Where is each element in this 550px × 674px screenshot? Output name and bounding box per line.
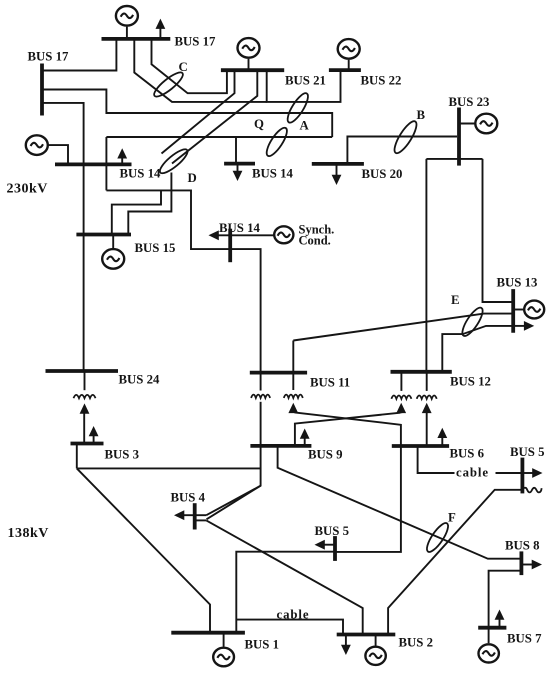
svg-text:BUS 3: BUS 3 [105, 448, 140, 462]
wire G22 to BUS 22 [348, 60, 350, 70]
generator G21 [238, 38, 260, 58]
load arrow BUS 9 (up) [304, 438, 306, 446]
wire G1 to BUS 1 [223, 633, 225, 647]
wire to BUS 15 (via riser x161) [112, 190, 161, 234]
wire BUS4 to BUS2 (riser1) [206, 520, 362, 634]
bus BUS 6 [392, 444, 449, 448]
svg-text:BUS 14: BUS 14 [252, 167, 293, 181]
svg-text:BUS 12: BUS 12 [450, 375, 491, 389]
transformer BUS11-T1 stub [260, 373, 262, 391]
transformer BUS12-T2 stub [426, 372, 428, 391]
svg-text:BUS 5: BUS 5 [315, 524, 350, 538]
load arrow BUS 8 (right) [521, 564, 533, 566]
svg-text:138kV: 138kV [8, 526, 49, 541]
svg-text:cable: cable [277, 608, 310, 622]
svg-text:E: E [451, 293, 460, 307]
svg-text:BUS 21: BUS 21 [285, 73, 326, 87]
transformer BUS12-T1 stub [400, 372, 402, 391]
svg-text:BUS 1: BUS 1 [245, 637, 280, 651]
svg-text:BUS 4: BUS 4 [171, 491, 206, 505]
wire L2 horizontal through Q [106, 136, 332, 138]
svg-text:A: A [300, 119, 310, 133]
wire G23 to BUS 23 [459, 123, 476, 125]
generator G2 [365, 647, 385, 665]
bus BUS 7 [478, 626, 506, 630]
ellipse B [391, 118, 420, 156]
bus BUS 5 (right vertical bar) [521, 458, 525, 494]
transformer BUS12-T1 arrow [396, 403, 406, 413]
ellipse A [284, 91, 311, 126]
transformer BUS11-T1 winding [251, 395, 270, 398]
bus BUS 15 [76, 233, 131, 237]
wire cable BUS1 to BUS2 [236, 620, 343, 635]
load arrow BUS 13 (right) [513, 325, 525, 327]
wire G2 to BUS 2 [375, 635, 377, 646]
bus BUS 8 (vertical bar) [520, 551, 524, 575]
wire G15 to BUS 15 [112, 235, 114, 249]
inductor on BUS 5 [522, 488, 541, 493]
wire BUS5 to BUS2 (riser2 diagonal) [388, 490, 522, 635]
bus BUS 20 [312, 162, 364, 166]
svg-text:BUS 14: BUS 14 [120, 166, 161, 180]
wire BUS23 double-leg header [426, 158, 482, 160]
transformer BUS11-T2 arrow [288, 403, 298, 413]
wire BUS9 below-bar to BUS 4 [207, 446, 261, 519]
svg-text:BUS 7: BUS 7 [507, 631, 542, 645]
svg-text:BUS 24: BUS 24 [119, 373, 160, 387]
bus BUS 9 [250, 444, 311, 448]
wire BUS3 left drop [76, 444, 78, 469]
svg-text:BUS 2: BUS 2 [399, 636, 434, 650]
wire riser to BUS 11 [292, 341, 294, 373]
svg-text:cable: cable [456, 465, 489, 479]
transformer BUS12-T2 arrow [422, 403, 432, 413]
load arrow BUS 5 right [522, 472, 534, 474]
bus BUS 3 [71, 442, 104, 446]
load arrow BUS 3 (up) [93, 435, 95, 443]
load arrow BUS 7 (up) [499, 619, 501, 628]
svg-text:Cond.: Cond. [299, 233, 331, 247]
wire synch cond to BUS 14 with load arrow [218, 234, 275, 236]
wire BUS12 to BUS13 (through E) [442, 326, 513, 372]
wire G7 to BUS 7 [488, 628, 490, 644]
wire G16 to bus [47, 145, 68, 164]
generator G17 (top) [116, 6, 138, 26]
generator G16 (left) [26, 135, 48, 155]
load arrow BUS 14 (down) [237, 164, 239, 172]
svg-text:BUS 14: BUS 14 [219, 221, 260, 235]
ellipse Q [263, 125, 290, 159]
svg-text:230kV: 230kV [7, 182, 48, 197]
wire BUS20 to BUS23 (through B) [347, 137, 457, 164]
wire BUS4 stub 2 [195, 519, 207, 521]
transformer BUS24 winding [74, 395, 96, 398]
wire D-1 BUS21 to D [162, 70, 235, 153]
transformer BUS12-T2 winding [417, 396, 437, 399]
svg-text:BUS 17: BUS 17 [28, 50, 69, 64]
ellipse C [151, 69, 186, 100]
transformer BUS24 arrow [80, 403, 90, 413]
transformer BUS11-T1 lead [260, 402, 262, 446]
bus BUS 17 (top bar) [102, 37, 171, 41]
bus BUS 12 [391, 370, 452, 374]
wire H1 horizontal to BUS 11 [106, 190, 260, 372]
generator G23 [475, 114, 497, 134]
generator G7 [479, 644, 499, 662]
load arrow BUS 6 (up) [441, 437, 443, 446]
bus bar (left, labelled BUS 14) [55, 162, 132, 166]
svg-text:Q: Q [254, 117, 264, 131]
bus BUS 5 (middle vertical bar) [333, 536, 337, 561]
wire C-2 BUS17 to BUS 21 (through C) [152, 39, 227, 93]
svg-text:BUS 11: BUS 11 [310, 375, 350, 389]
load arrow (up) on left BUS 14 [121, 158, 123, 165]
svg-text:F: F [448, 511, 456, 525]
wire BUS11 to BUS13 (through E) [293, 314, 513, 341]
wire X-line BUS11T2 to BUS6/BUS5 [295, 412, 401, 552]
wire BUS23 left leg to BUS 12 [425, 159, 427, 372]
bus BUS 24 [46, 369, 119, 373]
wire BUS3 to BUS1 diagonal [77, 468, 210, 632]
svg-text:BUS 5: BUS 5 [510, 445, 545, 459]
transformer BUS24 stub [84, 371, 86, 390]
generator Synch. Cond. [274, 226, 293, 243]
bus BUS 23 (vertical bar) [457, 108, 461, 166]
svg-text:C: C [179, 60, 188, 74]
svg-text:D: D [188, 171, 197, 185]
ellipse E [459, 305, 486, 339]
wire left BUS17 to node L1 (long horizontal) [43, 90, 332, 138]
wire D to BUS 15 [128, 173, 171, 235]
svg-text:BUS 15: BUS 15 [135, 241, 176, 255]
wire G13 to BUS 13 [513, 309, 524, 311]
bus BUS 21 [221, 68, 284, 72]
bus BUS 4 (vertical bar) [193, 503, 197, 529]
bus BUS 1 [171, 631, 245, 635]
bus BUS 17 (left vertical bar) [40, 64, 44, 116]
wire left BUS17 to top BUS17 [43, 39, 117, 71]
generator G13 [524, 301, 544, 319]
wire C-1 BUS17 to junction A (through C) [134, 39, 266, 102]
generator G15 [102, 249, 124, 269]
load arrow BUS 20 (down) [336, 164, 338, 176]
bus BUS 13 (vertical bar) [511, 289, 515, 333]
wire left BUS17 down-left trunk to BUS 15 / BUS 24 [43, 103, 84, 372]
load arrow BUS 5 mid (left) [324, 544, 335, 546]
bus BUS 14 (top middle) [224, 162, 255, 166]
wire BUS9 to BUS8 (through F) [278, 446, 522, 559]
wire BUS5mid to BUS1 riser [236, 552, 335, 633]
bus BUS 22 [329, 68, 361, 72]
wire D-2 BUS21 to D [172, 70, 257, 163]
bus BUS 2 [337, 633, 396, 637]
transformer BUS11-T2 stub [292, 373, 294, 390]
svg-text:BUS 8: BUS 8 [505, 539, 540, 553]
transformer BUS12-T1 winding [391, 396, 411, 399]
wire G17 to BUS 17 [126, 27, 128, 38]
svg-text:BUS 9: BUS 9 [308, 448, 343, 462]
bus BUS 14 (middle vertical bar) [228, 229, 232, 263]
wire A BUS21 to BUS22 (through A) [267, 70, 341, 102]
svg-text:B: B [417, 108, 426, 122]
svg-text:BUS 22: BUS 22 [361, 74, 402, 88]
generator G22 [338, 39, 360, 59]
load arrow BUS 2 (down) [345, 635, 347, 647]
load arrow BUS 17 (up) [159, 28, 161, 39]
svg-text:BUS 20: BUS 20 [362, 167, 403, 181]
wire L2 drop to BUS 14 [235, 137, 237, 164]
bus BUS 11 [250, 371, 307, 375]
wire G21 to BUS 21 [248, 59, 250, 70]
wire box left side at BUS 14 label [105, 137, 107, 190]
load arrow BUS 4 (left) [184, 514, 207, 516]
wire X-line BUS9 to BUS12-T1 [295, 413, 401, 446]
wire BUS8 to BUS7 [489, 571, 522, 628]
wire BUS4 to BUS9 [206, 486, 260, 516]
wire BUS23 right leg to BUS 13 [483, 159, 514, 302]
svg-text:BUS 13: BUS 13 [497, 275, 538, 289]
generator G1 [213, 648, 234, 667]
transformer BUS11-T2 winding [284, 395, 303, 398]
ellipse F [423, 520, 451, 554]
svg-text:BUS 17: BUS 17 [175, 35, 216, 49]
svg-text:BUS 23: BUS 23 [449, 95, 490, 109]
svg-text:BUS 6: BUS 6 [450, 447, 485, 461]
wire cable BUS6 to BUS5 [418, 446, 455, 473]
ellipse D [157, 146, 191, 177]
wire BUS3 to BUS9/BUS4 junction [77, 467, 261, 469]
